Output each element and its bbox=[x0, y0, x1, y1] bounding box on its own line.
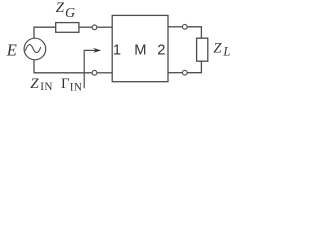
svg-text:IN: IN bbox=[40, 81, 53, 93]
svg-text:L: L bbox=[222, 45, 230, 59]
reference plane line Gamma_IN bbox=[84, 50, 96, 88]
svg-text:M: M bbox=[134, 43, 146, 59]
svg-text:Γ: Γ bbox=[61, 76, 70, 92]
resistor Z_G box bbox=[56, 23, 79, 33]
node terminal top-right port 2 bbox=[182, 24, 187, 29]
node terminal top-left port 1 bbox=[92, 25, 97, 30]
svg-text:E: E bbox=[6, 41, 17, 60]
wire M box bottom-left to terminal bbox=[97, 72, 112, 74]
wire terminal to source bottom bbox=[34, 60, 92, 73]
wire terminal to Z_L top bbox=[187, 27, 201, 38]
wire Z_L bottom to terminal bbox=[187, 61, 201, 72]
wire source-top to Z_G bbox=[34, 27, 56, 38]
svg-text:Z: Z bbox=[56, 0, 65, 16]
arrowhead of Gamma_IN arrow bbox=[93, 48, 101, 53]
node terminal bottom-left bbox=[92, 70, 97, 75]
load Z_L box bbox=[197, 38, 208, 61]
two-port network M box bbox=[112, 15, 168, 81]
svg-text:2: 2 bbox=[157, 43, 165, 59]
svg-text:Z: Z bbox=[30, 76, 39, 92]
wire terminal to M box bottom right bbox=[168, 72, 182, 74]
source E circle bbox=[24, 38, 46, 60]
wire terminal to M box port 1 bbox=[97, 26, 112, 28]
svg-text:IN: IN bbox=[70, 82, 83, 94]
svg-text:Z: Z bbox=[213, 41, 222, 57]
wire Z_G to node terminal bbox=[79, 26, 92, 28]
sine wave inside source bbox=[25, 45, 41, 53]
svg-text:G: G bbox=[65, 6, 75, 21]
wire M box port 2 to terminal bbox=[168, 26, 182, 28]
svg-text:1: 1 bbox=[113, 43, 121, 59]
node terminal bottom-right bbox=[182, 70, 187, 75]
